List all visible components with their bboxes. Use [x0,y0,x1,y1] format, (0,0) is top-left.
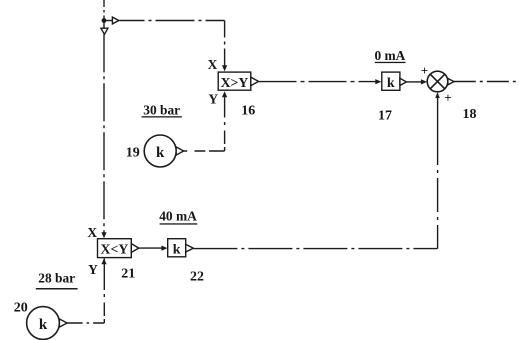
node: junction dot at top of main line [102,18,107,23]
arrow: filled arrowhead into top of block 16 [222,65,227,71]
svg-text:k: k [156,145,165,161]
arrow: filled arrowhead into top of block 21 [101,232,106,238]
svg-text:k: k [173,242,181,257]
gain block 17: k [382,72,400,90]
wire: dash-dot from block 22 output right then up (joins W8) [193,248,437,250]
svg-text:19: 19 [126,145,140,160]
arrow: filled arrowhead up into block 21 bottom (Y input) [101,258,106,264]
wire: solid line block 21 to block 22 [139,247,162,249]
comparator block 16: X>Y [218,72,251,90]
arrow: filled arrowhead into block 22 [161,246,167,251]
wire: top vertical dash-dot entering from image top at x=104 [103,0,105,21]
wire: dash-dot from circle 18 output to right edge [454,81,519,83]
arrow: filled arrowhead up into circle 18 bottom [435,92,440,98]
svg-text:Y: Y [88,262,98,277]
arrow: filled arrowhead into left of circle 18 [421,79,427,84]
svg-text:30 bar: 30 bar [143,102,180,117]
svg-text:+: + [444,90,451,105]
svg-text:20: 20 [14,300,28,315]
svg-text:X<Y: X<Y [101,241,129,256]
underline of 30 bar [142,116,182,117]
arrow: open triangle output of block 16 [251,77,259,86]
wire: vertical line from corner up into bottom of circle 18 [437,94,439,132]
underline of 40 mA [160,223,198,224]
arrow: open triangle output of circle 18 [448,78,454,84]
wire: Y input of block 21 from circle 20 [67,322,104,324]
svg-text:17: 17 [378,109,392,124]
transmitter circle 20 [27,307,60,340]
wire: main vertical dash-dot down to block 21 X input [103,34,105,233]
wire: solid line from block 17 to summing circle 18 [406,81,421,83]
underline of 0 mA [375,62,406,63]
arrow: filled arrowhead into block 17 [375,79,381,84]
arrow: open triangle output of circle 20 [59,319,67,327]
wire: dash-dot from block 16 output to block 17 input [259,81,377,83]
wire: vertical dash-dot from corner down to X input of block 16 [224,21,226,66]
svg-text:18: 18 [463,107,477,122]
svg-text:X>Y: X>Y [221,75,249,90]
comparator block 21: X<Y [98,239,132,258]
arrow: open triangle output of block 17 [400,78,407,85]
svg-text:28 bar: 28 bar [38,271,75,286]
arrow: open triangle pointing right after junction [112,17,118,24]
svg-text:16: 16 [241,104,255,119]
svg-text:X: X [208,57,218,72]
gain block 22: k [168,239,186,257]
svg-text:Y: Y [208,91,218,106]
summing junction 18: circle with X cross [427,71,448,92]
arrow: open triangle output of circle 19 [176,147,183,155]
svg-text:40 mA: 40 mA [159,209,197,224]
arrow: filled arrowhead up into block 16 bottom (Y input) [222,91,227,97]
underline of 28 bar [36,288,78,290]
svg-text:0 mA: 0 mA [374,48,405,63]
arrow: open triangle output of block 21 [131,244,139,253]
svg-text:X: X [87,225,97,240]
svg-text:k: k [39,317,48,333]
svg-text:22: 22 [190,270,204,285]
svg-text:21: 21 [121,266,135,281]
svg-text:+: + [421,63,428,78]
arrow: open triangle output of block 22 [186,244,194,252]
wire: stub from junction down to flow triangle [103,21,105,29]
wire: stub from junction to right arrow [104,20,112,22]
transmitter circle 19 [144,135,176,167]
wire: vertical from Y-corner of circle 19 up to block 16 bottom [184,150,225,152]
svg-text:k: k [387,76,395,91]
arrow: open triangle pointing down on main vertical line [101,28,108,34]
wire: horizontal dash-dot from arrow to corner above block 16 [120,20,225,22]
